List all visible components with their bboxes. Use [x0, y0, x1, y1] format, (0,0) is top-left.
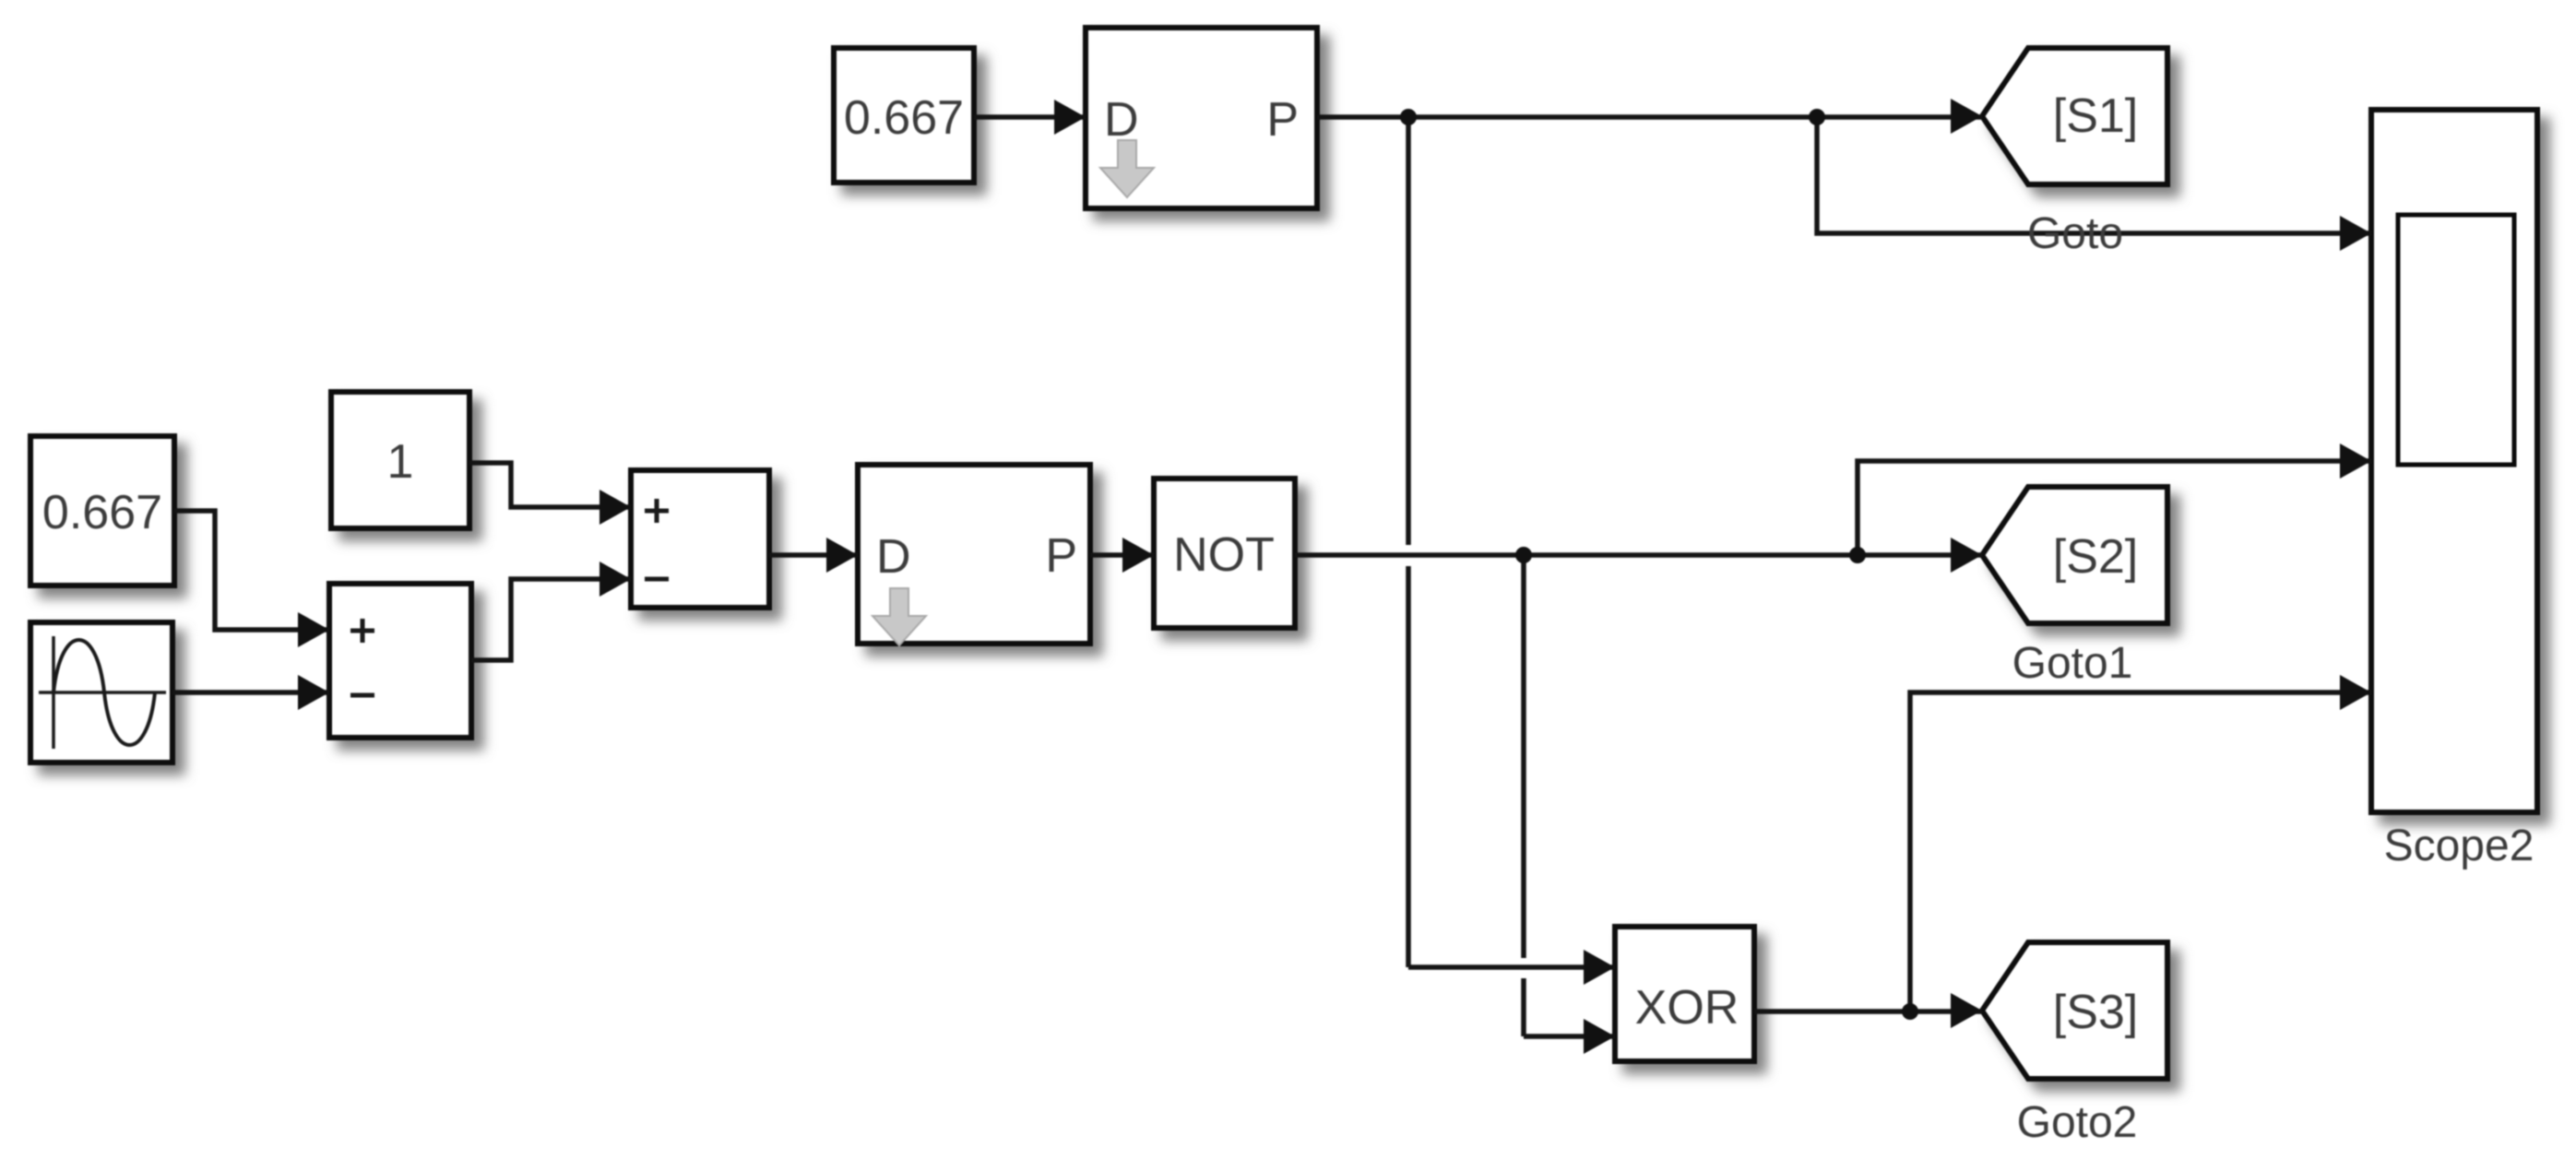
- svg-text:P: P: [1266, 93, 1299, 147]
- svg-text:Goto1: Goto1: [2012, 639, 2133, 688]
- svg-text:P: P: [1045, 529, 1077, 583]
- svg-text:0.667: 0.667: [844, 91, 964, 145]
- svg-text:NOT: NOT: [1173, 528, 1275, 582]
- svg-text:Goto: Goto: [2027, 209, 2123, 258]
- svg-text:0.667: 0.667: [42, 486, 162, 539]
- svg-text:D: D: [876, 530, 911, 584]
- svg-text:[S1]: [S1]: [2053, 89, 2139, 143]
- svg-text:[S3]: [S3]: [2053, 986, 2139, 1039]
- svg-text:1: 1: [387, 435, 414, 489]
- svg-text:[S2]: [S2]: [2053, 530, 2139, 584]
- svg-text:Scope2: Scope2: [2384, 822, 2534, 870]
- svg-text:Goto2: Goto2: [2017, 1098, 2138, 1147]
- svg-text:XOR: XOR: [1635, 981, 1739, 1035]
- svg-text:D: D: [1104, 93, 1139, 147]
